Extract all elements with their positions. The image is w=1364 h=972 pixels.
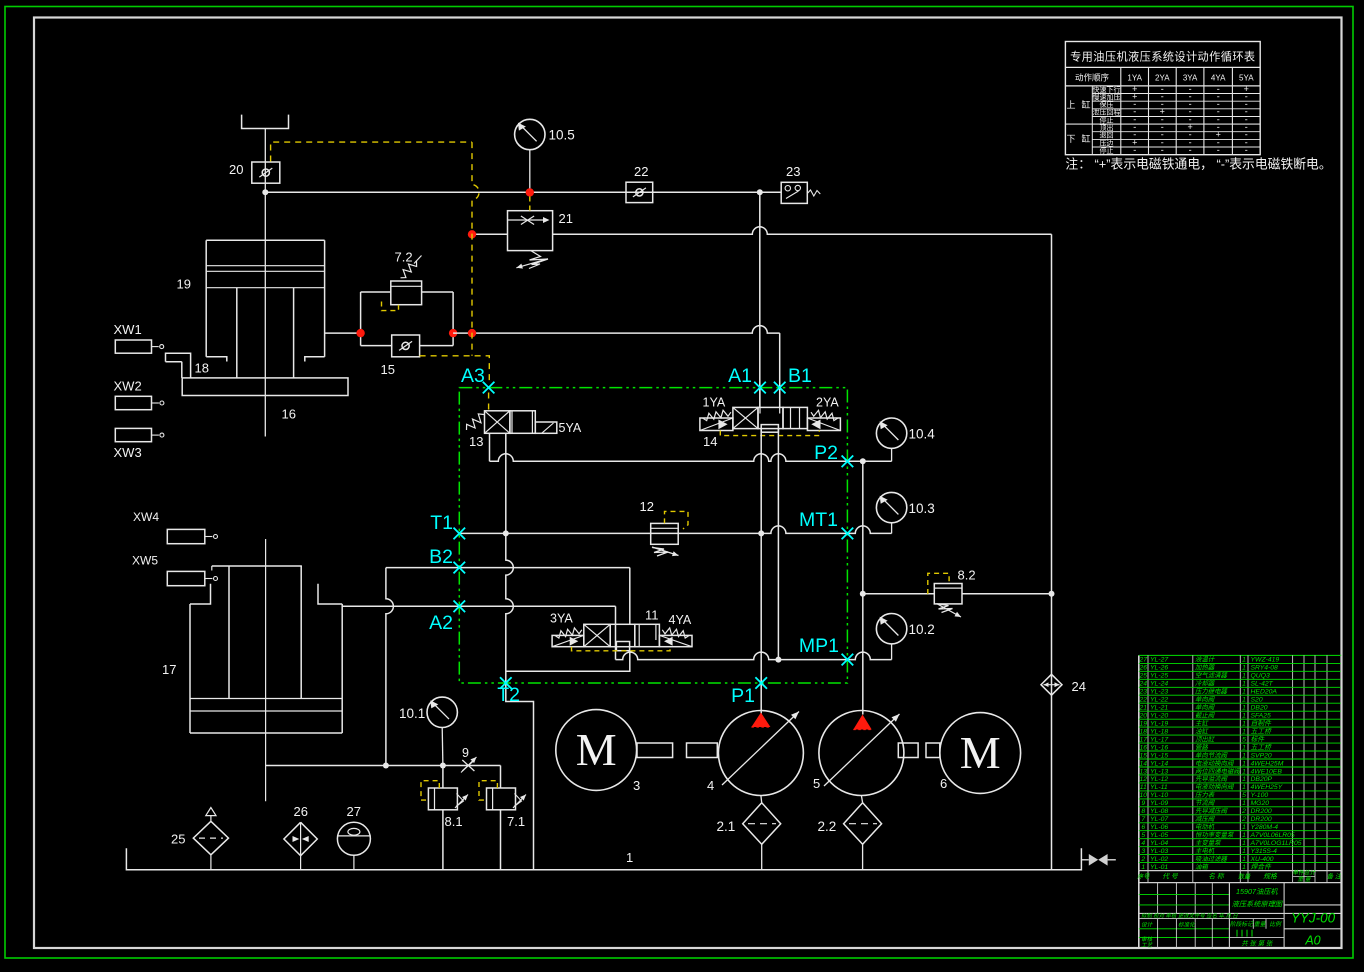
svg-text:1: 1 (1242, 768, 1246, 775)
svg-text:快速下行: 快速下行 (1093, 85, 1121, 94)
cylinder 19 ram sides (236, 288, 238, 378)
svg-text:2: 2 (1140, 856, 1145, 863)
wire - main line to manifold B1 (453, 326, 780, 333)
svg-text:YL-07: YL-07 (1150, 816, 1168, 823)
svg-text:泄压回程: 泄压回程 (1093, 108, 1121, 117)
svg-text:先导溢流阀: 先导溢流阀 (1195, 775, 1229, 783)
svg-text:专用油压机液压系统设计动作循环表: 专用油压机液压系统设计动作循环表 (1070, 50, 1255, 64)
valve 8.2 spring and adjuster (937, 604, 953, 613)
port T2 (500, 677, 512, 689)
title block (1157, 883, 1159, 914)
svg-text:YL-25: YL-25 (1150, 673, 1168, 680)
svg-text:设计: 设计 (1141, 922, 1154, 929)
wire - B2 into valve 11 (629, 568, 631, 625)
svg-text:XW2: XW2 (114, 379, 142, 394)
svg-text:停止: 停止 (1100, 115, 1114, 124)
svg-text:油箱: 油箱 (1195, 863, 1209, 871)
svg-text:1: 1 (1242, 673, 1246, 680)
wire - valve 14 T stub down to MP1 rail (777, 429, 779, 660)
limit switch XW4 (167, 529, 205, 543)
svg-text:23: 23 (786, 164, 800, 179)
svg-text:液温计: 液温计 (1195, 656, 1215, 664)
svg-text:1: 1 (1242, 721, 1246, 728)
svg-text:管路: 管路 (1195, 743, 1208, 751)
svg-text:YL-02: YL-02 (1150, 856, 1168, 863)
wire - P2 riser from pump 5 (862, 461, 864, 714)
svg-text:备 注: 备 注 (1327, 873, 1343, 881)
svg-text:电动机: 电动机 (1195, 823, 1215, 831)
svg-text:1: 1 (1141, 864, 1145, 871)
svg-text:XW1: XW1 (114, 322, 142, 337)
wire - valve 7.1 to tank (500, 810, 502, 870)
svg-text:5YA: 5YA (1239, 74, 1254, 83)
svg-text:5: 5 (1141, 832, 1145, 839)
port A3 (483, 382, 495, 394)
valve 11 solenoid 3YA (552, 635, 584, 646)
port A2 (454, 601, 466, 613)
svg-text:顶出缸: 顶出缸 (1195, 735, 1216, 743)
node - junction valve 8.2 line (860, 591, 866, 597)
svg-text:3YA: 3YA (1183, 74, 1198, 83)
svg-text:XW3: XW3 (114, 445, 142, 460)
tank line 1 (126, 848, 1081, 869)
svg-text:1: 1 (1242, 848, 1246, 855)
svg-text:1: 1 (1242, 840, 1246, 847)
svg-text:1: 1 (626, 850, 633, 865)
svg-text:18: 18 (1140, 728, 1148, 735)
wire - bypass loop around valves 7.2 and 15 (360, 292, 362, 346)
svg-text:YL-14: YL-14 (1150, 760, 1168, 767)
svg-text:重 量: 重 量 (1297, 876, 1311, 883)
svg-text:SFA25: SFA25 (1251, 713, 1271, 720)
svg-text:4: 4 (707, 778, 714, 793)
relief valve 7.2 body (391, 281, 422, 305)
svg-text:-: - (1133, 145, 1136, 155)
limit switch XW1 (115, 340, 151, 353)
svg-text:YL-16: YL-16 (1150, 744, 1168, 751)
svg-text:五工桥: 五工桥 (1251, 727, 1273, 735)
valve 11 bottom port box (616, 642, 629, 651)
svg-text:17: 17 (162, 662, 176, 677)
wire - pump 4 suction (760, 796, 763, 803)
wire - overhead bracket above valve 20 (242, 115, 289, 129)
air filter 25 (193, 821, 228, 855)
svg-text:7: 7 (1141, 816, 1145, 823)
variable pump 5 (819, 711, 904, 796)
svg-text:A3: A3 (461, 365, 485, 387)
node - junction at pressure switch 23 (757, 189, 763, 195)
port T1 (454, 528, 466, 540)
svg-text:审核: 审核 (1141, 936, 1154, 943)
svg-text:YL-11: YL-11 (1150, 784, 1168, 791)
pump 4 outlet triangle (751, 713, 770, 728)
svg-text:QUQ3: QUQ3 (1251, 673, 1270, 680)
svg-text:13: 13 (469, 434, 483, 449)
shaft couplings motor3-pump4 (637, 743, 673, 758)
svg-text:缸: 缸 (1081, 99, 1090, 110)
pilot line - valve 7.2 drain hook (382, 300, 399, 311)
svg-text:电液动换向阀: 电液动换向阀 (1195, 759, 1235, 767)
node - pilot junction on main line (468, 329, 476, 337)
svg-text:-: - (1161, 145, 1164, 155)
wire - squiggle right of switch 23 (807, 190, 820, 196)
svg-text:Y280M-4: Y280M-4 (1251, 824, 1279, 831)
cylinder 17 body walls (189, 604, 191, 733)
node - junction valve14 T on MP1 rail (775, 657, 781, 663)
svg-text:1: 1 (1242, 713, 1246, 720)
svg-text:YL-06: YL-06 (1150, 824, 1168, 831)
svg-text:A0: A0 (1304, 934, 1320, 948)
svg-text:22: 22 (1139, 697, 1148, 704)
svg-text:YL-24: YL-24 (1150, 681, 1168, 688)
svg-text:4WE10EB: 4WE10EB (1251, 768, 1283, 775)
svg-text:M: M (576, 724, 617, 775)
svg-text:保压: 保压 (1100, 100, 1114, 109)
svg-text:11: 11 (645, 608, 659, 623)
pilot line - solenoid leads under valve 11 (572, 647, 671, 651)
svg-text:3YA: 3YA (550, 612, 573, 626)
valve 11 solenoid 4YA (659, 635, 692, 646)
shaft couplings pump5-motor6 (898, 743, 918, 758)
port B2 (454, 562, 466, 574)
svg-text:压边: 压边 (1100, 138, 1114, 147)
cylinder 17 piston lines (190, 698, 342, 700)
svg-text:19: 19 (1140, 721, 1148, 728)
svg-text:YL-13: YL-13 (1150, 768, 1168, 775)
node - junction T column on T1 rail (503, 530, 509, 536)
svg-text:P1: P1 (731, 685, 755, 707)
port A1 (754, 382, 766, 394)
svg-text:10.5: 10.5 (549, 128, 575, 143)
svg-text:动作顺序: 动作顺序 (1075, 73, 1110, 83)
svg-text:共 张 第 张: 共 张 第 张 (1241, 940, 1273, 948)
variable pump 4 (718, 711, 803, 796)
port P1 (755, 677, 767, 689)
wire - drop into reducing valve 7.1 (500, 766, 502, 789)
check diamond 24 (1041, 674, 1062, 695)
svg-text:缸: 缸 (1081, 133, 1090, 144)
svg-text:DR200: DR200 (1251, 808, 1272, 815)
wire - A1 drop line from switch junction (759, 192, 761, 407)
svg-text:26: 26 (294, 804, 308, 819)
svg-text:YL-12: YL-12 (1150, 776, 1168, 783)
svg-text:单向阀: 单向阀 (1195, 696, 1216, 704)
limit switch XW3 (115, 428, 151, 441)
svg-text:4WEH25M: 4WEH25M (1251, 760, 1284, 767)
svg-text:电液动换向阀: 电液动换向阀 (1195, 783, 1235, 791)
svg-text:20: 20 (1139, 713, 1148, 720)
wire - B1 drop line (779, 333, 781, 407)
svg-text:12: 12 (1140, 776, 1148, 783)
svg-text:4YA: 4YA (1211, 74, 1226, 83)
pilot line - gauge junction to valve 21 top (529, 197, 531, 211)
port MP1 (842, 654, 854, 666)
title block centre (1228, 883, 1230, 948)
check valve 22 (626, 182, 653, 202)
svg-text:1: 1 (1242, 824, 1246, 831)
valve 7.1 adjuster (513, 795, 526, 809)
svg-text:总计: 总计 (1304, 870, 1317, 877)
wire - lower pilot rail (266, 765, 501, 767)
svg-text:2: 2 (1241, 808, 1246, 815)
svg-text:7.1: 7.1 (507, 814, 525, 829)
svg-text:主变量泵: 主变量泵 (1195, 839, 1222, 847)
svg-text:YL-05: YL-05 (1150, 832, 1168, 839)
svg-text:代 号: 代 号 (1162, 873, 1179, 881)
svg-text:DB20P: DB20P (1251, 776, 1273, 783)
svg-text:1: 1 (1242, 728, 1246, 735)
svg-text:21: 21 (559, 211, 573, 226)
cylinder 19 piston lines (206, 265, 324, 267)
svg-text:3: 3 (633, 778, 640, 793)
port P2 (842, 456, 854, 468)
svg-text:S20: S20 (1251, 697, 1263, 704)
valve 14 centre blocked port box (761, 425, 778, 433)
solenoid valve 11 body (584, 624, 610, 646)
port B1 (774, 382, 786, 394)
svg-text:Y-100: Y-100 (1251, 792, 1269, 799)
pressure gauge 10.3 (876, 492, 906, 522)
svg-text:YL-10: YL-10 (1150, 792, 1168, 799)
suction filter 2.1 (743, 803, 781, 845)
svg-text:DB20: DB20 (1251, 705, 1268, 712)
pressure gauge 10.2 (876, 614, 906, 644)
valve 7.1 pilot hook (479, 781, 497, 800)
svg-text:数量: 数量 (1238, 873, 1251, 881)
cylinder 19 bottom lips (206, 357, 227, 362)
svg-text:T1: T1 (430, 512, 453, 534)
svg-text:XW4: XW4 (133, 510, 159, 524)
svg-text:6: 6 (940, 776, 947, 791)
svg-text:27: 27 (347, 804, 361, 819)
reducing valve 7.1 body (487, 788, 516, 810)
svg-text:单向阀: 单向阀 (1195, 704, 1216, 712)
svg-text:顶出: 顶出 (1100, 123, 1114, 132)
node - loop right junction (449, 329, 457, 337)
svg-text:YL-27: YL-27 (1150, 657, 1168, 664)
svg-text:YL-20: YL-20 (1150, 713, 1168, 720)
wire - cylinder 19 port to loop (325, 332, 361, 334)
svg-text:焊合件: 焊合件 (1251, 863, 1273, 871)
svg-text:YL-17: YL-17 (1150, 736, 1168, 743)
svg-text:YL-18: YL-18 (1150, 728, 1168, 735)
parts list header row (1139, 870, 1342, 872)
valve 8.2 pilot hook (928, 573, 949, 594)
valve 8.1 adjuster (455, 795, 468, 809)
svg-text:2.1: 2.1 (717, 819, 736, 834)
wire - valve 11 tank drain (506, 651, 630, 672)
suction filter 2.2 (844, 803, 882, 845)
svg-text:油缸: 油缸 (1195, 727, 1209, 735)
pilot line - valve 15 to port A3 (420, 356, 490, 381)
svg-text:19: 19 (177, 277, 191, 292)
svg-text:5: 5 (1242, 736, 1246, 743)
node - junction on main riser (1049, 591, 1055, 597)
electric motor 6 (940, 713, 1021, 794)
svg-text:14: 14 (703, 434, 717, 449)
svg-text:序号: 序号 (1137, 873, 1150, 881)
svg-text:12: 12 (640, 499, 654, 514)
valve 14 solenoid 1YA (700, 418, 733, 431)
svg-text:液压系统原理图: 液压系统原理图 (1232, 900, 1284, 909)
svg-text:2: 2 (1241, 816, 1246, 823)
svg-text:空气滤清器: 空气滤清器 (1195, 672, 1228, 680)
svg-text:5: 5 (813, 776, 820, 791)
wire - valve 14 P stub down to pump 4 (760, 429, 762, 714)
wire - line to relief valve 8.2 (863, 593, 935, 595)
wire - P2 rail across manifold (490, 454, 892, 461)
svg-text:标准化: 标准化 (1178, 922, 1196, 929)
relief valve 21 spring (529, 251, 548, 269)
reducing valve 8.1 body (428, 788, 457, 810)
svg-text:25: 25 (171, 832, 185, 847)
svg-text:1: 1 (1242, 697, 1246, 704)
pressure switch 23 body (781, 182, 807, 203)
svg-text:B1: B1 (788, 365, 812, 387)
svg-text:16: 16 (1140, 744, 1148, 751)
pressure relief valve 12 body (651, 523, 679, 544)
manifold enclosure (green chain line) (459, 388, 847, 683)
svg-text:1: 1 (1242, 665, 1246, 672)
check valve 15 body (392, 335, 420, 357)
cylinder 19 outer shell (206, 239, 324, 241)
wire - to pressure switch 23 (760, 191, 781, 193)
svg-text:退回: 退回 (1100, 131, 1114, 140)
pilot line - solenoid leads under valve 14 (720, 431, 819, 436)
solenoid valve 13 body (485, 411, 510, 434)
wire - valve 21 inlet stub (473, 233, 508, 235)
relief valve 21 body (508, 211, 553, 251)
svg-text:五工桥: 五工桥 (1251, 743, 1273, 751)
svg-text:15: 15 (1140, 752, 1148, 759)
svg-text:SVP20: SVP20 (1251, 752, 1272, 759)
svg-text:YL-08: YL-08 (1150, 808, 1168, 815)
cylinder 17 center line (265, 539, 267, 801)
svg-text:1YA: 1YA (703, 396, 726, 410)
svg-text:1: 1 (1242, 752, 1246, 759)
svg-text:8.2: 8.2 (958, 568, 976, 583)
svg-text:10.4: 10.4 (909, 427, 936, 442)
cylinder 17 top lips (190, 584, 211, 604)
relief valve 7.2 spring (401, 261, 417, 278)
svg-text:标件: 标件 (1251, 735, 1266, 743)
svg-text:MT1: MT1 (799, 509, 838, 531)
svg-text:8: 8 (1141, 808, 1145, 815)
svg-text:5: 5 (1242, 792, 1246, 799)
svg-text:-: - (1189, 145, 1192, 155)
svg-text:两位四通电磁阀: 两位四通电磁阀 (1195, 767, 1241, 775)
svg-text:5YA: 5YA (559, 421, 582, 435)
parts list table (1138, 655, 1140, 948)
wire - drop into reducing valve 8.1 (442, 766, 444, 789)
svg-text:XU-400: XU-400 (1250, 856, 1274, 863)
svg-text:主电机: 主电机 (1195, 847, 1215, 855)
svg-text:YL-09: YL-09 (1150, 800, 1168, 807)
wire - B2 rail (386, 567, 630, 569)
wire - right main riser down to tank (1051, 234, 1053, 869)
svg-text:2.2: 2.2 (818, 819, 837, 834)
svg-text:YL-21: YL-21 (1150, 705, 1168, 712)
svg-text:截止阀: 截止阀 (1195, 712, 1216, 720)
svg-text:1: 1 (1242, 681, 1246, 688)
wire - valve 21 outlet line to right main riser (553, 227, 1052, 234)
node - red junction at gauge 10.5 (526, 188, 534, 196)
svg-text:1YA: 1YA (1127, 74, 1142, 83)
svg-text:B2: B2 (429, 546, 453, 568)
valve 14 solenoid 2YA (807, 418, 840, 431)
svg-text:SL-42T: SL-42T (1251, 681, 1274, 688)
svg-text:比例: 比例 (1269, 921, 1282, 928)
wire - T1 to MT1 rail (459, 526, 891, 533)
svg-text:慢速加压: 慢速加压 (1093, 92, 1121, 101)
wire - T2 return to tank (506, 683, 534, 870)
svg-text:9: 9 (462, 746, 469, 760)
svg-text:16: 16 (282, 407, 296, 422)
svg-text:先导减压阀: 先导减压阀 (1195, 807, 1229, 815)
svg-text:YL-23: YL-23 (1150, 689, 1168, 696)
pressure gauge 10.4 (876, 418, 906, 448)
svg-text:A7V0L06LR05: A7V0L06LR05 (1250, 832, 1295, 839)
svg-text:名 称: 名 称 (1208, 873, 1225, 881)
svg-text:SRY4-08: SRY4-08 (1251, 665, 1279, 672)
pilot line - from valve 20 to valve 21 column (271, 142, 472, 161)
svg-text:YWZ-419: YWZ-419 (1251, 657, 1280, 664)
wire - valve 13 through stub down to T column (506, 433, 514, 683)
svg-text:YL-03: YL-03 (1150, 848, 1168, 855)
svg-text:XW5: XW5 (132, 554, 158, 568)
cooler 26 (284, 822, 317, 855)
valve 8.1 pilot hook (421, 781, 439, 800)
valve 13 return spring (467, 414, 485, 430)
wire - A2 through valve 11 (615, 606, 617, 659)
cylinder 17 rod sides (228, 566, 230, 699)
wire - main upper pressure line (265, 191, 760, 193)
svg-text:10.2: 10.2 (909, 622, 935, 637)
svg-text:25: 25 (1139, 673, 1148, 680)
svg-text:24: 24 (1139, 681, 1148, 688)
svg-text:1: 1 (1242, 864, 1246, 871)
svg-text:节流阀: 节流阀 (1195, 799, 1216, 807)
wire - pump 5 suction (861, 796, 862, 803)
svg-text:YL-22: YL-22 (1150, 697, 1168, 704)
svg-text:4YA: 4YA (669, 613, 692, 627)
pump 5 outlet triangle (853, 715, 871, 730)
drain shut-off valve (1081, 859, 1088, 861)
svg-text:工艺: 工艺 (1141, 942, 1154, 949)
svg-text:吸油过滤器: 吸油过滤器 (1195, 855, 1228, 863)
svg-text:1: 1 (1242, 657, 1246, 664)
wire - A1 and B1 stubs into valve 14 (759, 388, 761, 414)
svg-text:1: 1 (1242, 705, 1246, 712)
svg-text:10.1: 10.1 (399, 706, 425, 721)
svg-text:YL-26: YL-26 (1150, 665, 1168, 672)
svg-text:YL-01: YL-01 (1150, 864, 1168, 871)
svg-text:拟制 校对 审核 更改文件号 签名 年.月.日: 拟制 校对 审核 更改文件号 签名 年.月.日 (1141, 913, 1238, 920)
svg-text:A2: A2 (429, 612, 453, 634)
pilot line - A3 into valve 13 (488, 393, 490, 411)
wire - B2 drop to pilot rail (386, 568, 394, 766)
limit switch XW2 (115, 396, 151, 409)
svg-text:13: 13 (1140, 768, 1148, 775)
svg-text:3: 3 (1141, 848, 1145, 855)
svg-text:1: 1 (1242, 760, 1246, 767)
relief valve 8.2 body (934, 584, 962, 604)
wire - MP1 rail (616, 652, 892, 659)
svg-text:11: 11 (1140, 784, 1147, 791)
wire - A2 rail (342, 605, 615, 607)
svg-text:2YA: 2YA (816, 396, 839, 410)
svg-text:压力继电器: 压力继电器 (1195, 688, 1228, 696)
